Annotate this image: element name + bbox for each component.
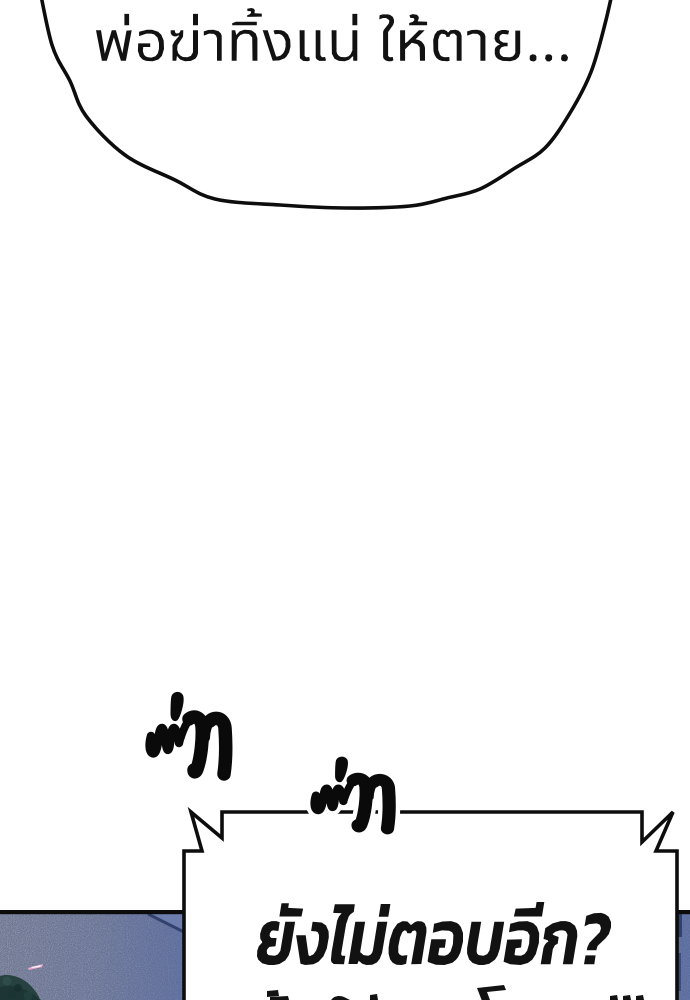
lighter diagonal band + dark streak xyxy=(150,913,184,931)
box text xyxy=(257,902,611,965)
pink streak xyxy=(28,964,43,970)
partial second line glyph tops xyxy=(267,985,644,1000)
sfx zaa 1 xyxy=(150,692,226,774)
photo panel background xyxy=(0,910,690,1000)
dark teal foliage bottom-left xyxy=(0,975,40,1000)
panel top border xyxy=(0,910,690,914)
blue gradient toward box xyxy=(0,913,184,1000)
sfx zaa 2 (with white halo over box border) xyxy=(315,757,390,828)
right sliver brighter blue xyxy=(676,913,690,1000)
bubble text xyxy=(96,8,568,62)
speech bubble top xyxy=(38,0,615,208)
speech box with jagged corners xyxy=(184,812,677,1000)
